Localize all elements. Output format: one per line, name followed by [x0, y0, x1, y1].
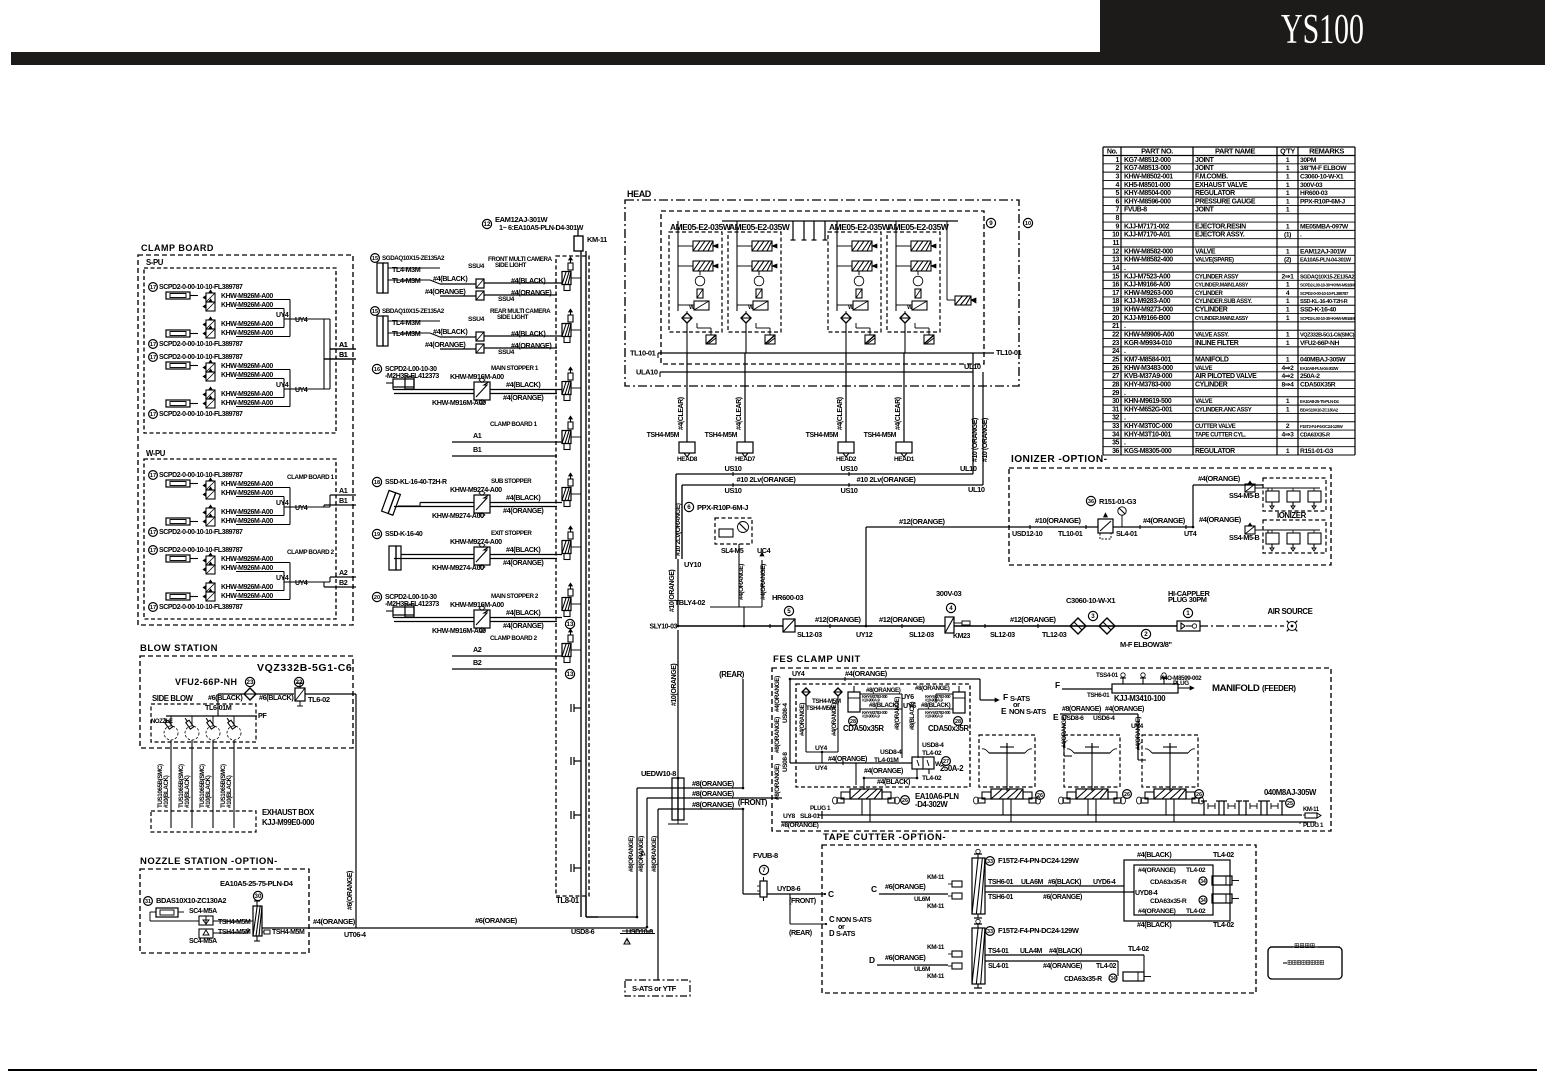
svg-text:#4(ORANGE): #4(ORANGE) [1143, 516, 1186, 525]
svg-text:VALVE: VALVE [1195, 399, 1213, 405]
svg-text:EJECTOR ASSY.: EJECTOR ASSY. [1195, 232, 1245, 239]
svg-text:#4(ORANGE): #4(ORANGE) [425, 340, 466, 349]
svg-text:(FEEDER): (FEEDER) [1262, 684, 1296, 693]
svg-text:KHW-M926M-A00: KHW-M926M-A00 [221, 400, 273, 407]
svg-text:SCPD2-0-00-10-10-FL389787: SCPD2-0-00-10-10-FL389787 [159, 547, 243, 554]
svg-text:#10 2Lv(ORANGE): #10 2Lv(ORANGE) [737, 475, 797, 484]
svg-text:#4(CLEAR): #4(CLEAR) [736, 397, 743, 430]
svg-text:(2): (2) [1284, 257, 1291, 264]
svg-text:KHW-M926M-A00: KHW-M926M-A00 [221, 518, 273, 525]
svg-text:CLAMP BOARD 1: CLAMP BOARD 1 [490, 421, 538, 428]
svg-text:JOINT: JOINT [1195, 207, 1215, 214]
cutter valve F15T2-F4-PN-DC24-129W [952, 881, 962, 887]
svg-text:KHW-M926M-A00: KHW-M926M-A00 [221, 593, 273, 600]
svg-text:13: 13 [567, 621, 574, 628]
svg-text:B1: B1 [473, 445, 482, 454]
solenoid valve EA10A8 [1154, 789, 1186, 799]
svg-text:AIR SOURCE: AIR SOURCE [1268, 607, 1313, 616]
svg-text:B1: B1 [339, 350, 348, 359]
svg-text:2: 2 [1116, 165, 1120, 172]
svg-text:#10 (ORANGE): #10 (ORANGE) [972, 418, 979, 462]
svg-text:F.M.COMB.: F.M.COMB. [1195, 173, 1228, 180]
svg-text:KVB-M37A9-000: KVB-M37A9-000 [1124, 373, 1173, 380]
svg-text:EXHAUST BOX: EXHAUST BOX [262, 808, 315, 817]
svg-text:BDAS10X10-ZC130A2: BDAS10X10-ZC130A2 [1300, 407, 1339, 412]
svg-text:#6(ORANGE): #6(ORANGE) [347, 871, 354, 910]
valve manifold dashed box [556, 256, 589, 896]
S-ATS or YTF box [657, 978, 659, 980]
svg-text:#10 (ORANGE): #10 (ORANGE) [982, 418, 989, 462]
circled 9 [986, 218, 995, 227]
ionizer supply line [1009, 526, 1193, 528]
svg-text:EA10A5-25-75-PLN-D4: EA10A5-25-75-PLN-D4 [220, 879, 294, 888]
UL10 risers [972, 353, 974, 474]
svg-text:SUB STOPPER: SUB STOPPER [491, 478, 532, 485]
S-PU box [144, 268, 336, 433]
note box [1268, 947, 1342, 979]
svg-text:26: 26 [1037, 793, 1043, 799]
svg-text:2⇒1: 2⇒1 [1282, 273, 1295, 280]
cylinder group SCPD2 [149, 353, 158, 362]
svg-text:#6(BLACK): #6(BLACK) [1048, 879, 1081, 886]
svg-text:CYLINDER: CYLINDER [1195, 381, 1228, 388]
svg-text:PART NO.: PART NO. [1141, 147, 1173, 156]
ionizer regulator R151-01-G3 [1086, 496, 1095, 505]
svg-text:KHW-M916M-A00: KHW-M916M-A00 [450, 600, 504, 609]
svg-text:C3060-10-W-X1: C3060-10-W-X1 [1300, 173, 1344, 180]
svg-text:32: 32 [1112, 415, 1119, 422]
parts table [1102, 147, 1104, 455]
svg-text:30: 30 [255, 893, 262, 900]
svg-text:4⇒2: 4⇒2 [1282, 373, 1295, 380]
svg-text:26: 26 [1112, 365, 1119, 372]
UY4 bus [790, 762, 912, 764]
TL10-01 bus [658, 352, 994, 354]
svg-text:13: 13 [1112, 257, 1119, 264]
svg-text:W-PU: W-PU [146, 449, 166, 458]
svg-text:#10-900A.9: #10-900A.9 [862, 698, 880, 703]
cylinder body [377, 316, 383, 346]
svg-text:14: 14 [1112, 265, 1119, 272]
svg-text:AME05-E2-035W: AME05-E2-035W [888, 222, 949, 232]
svg-text:S-ATS or YTF: S-ATS or YTF [632, 984, 677, 993]
svg-text:TL4-02: TL4-02 [1186, 908, 1206, 915]
svg-text:#4(ORANGE): #4(ORANGE) [800, 703, 806, 736]
svg-text:HEAD1: HEAD1 [894, 456, 915, 463]
air piloted valve 250A-2 [912, 757, 934, 769]
svg-text:UY4: UY4 [295, 317, 308, 324]
svg-text:7: 7 [1116, 207, 1120, 214]
svg-text:#8(ORANGE): #8(ORANGE) [866, 687, 901, 694]
svg-text:VALVE: VALVE [1195, 248, 1216, 255]
svg-text:UEDW10-8: UEDW10-8 [641, 769, 676, 778]
svg-text:#4(BLACK): #4(BLACK) [877, 779, 910, 786]
svg-text:CLAMP BOARD: CLAMP BOARD [141, 243, 214, 253]
svg-text:PPX-R10P-6M-J: PPX-R10P-6M-J [697, 503, 748, 512]
svg-text:KHY-M3T0C-000: KHY-M3T0C-000 [1124, 423, 1173, 430]
manifold valve [568, 422, 573, 429]
svg-text:SCPD2-0-00-10-10-FL389787: SCPD2-0-00-10-10-FL389787 [159, 354, 243, 361]
cylinder wiring [860, 693, 902, 695]
svg-text:NOZZLE STATION -OPTION-: NOZZLE STATION -OPTION- [140, 856, 278, 867]
svg-text:TL4-01M: TL4-01M [874, 757, 899, 764]
svg-text:1~ 6:EA10A5-PLN-D4-301W: 1~ 6:EA10A5-PLN-D4-301W [499, 223, 584, 232]
stopper cylinder [393, 379, 414, 387]
wire 4 black/orange to SSU4 [430, 280, 440, 284]
svg-text:#4(ORANGE): #4(ORANGE) [1136, 717, 1142, 750]
svg-text:D: D [829, 929, 835, 938]
svg-text:TL10-01: TL10-01 [996, 348, 1022, 357]
svg-text:UY4: UY4 [815, 765, 828, 772]
svg-text:KHW-M9274-A00: KHW-M9274-A00 [450, 485, 502, 494]
cylinder D CDA63x35-R [1123, 972, 1144, 981]
svg-text:#4(ORANGE): #4(ORANGE) [828, 756, 867, 763]
svg-text:EA10A8-PLN-04-302W: EA10A8-PLN-04-302W [1300, 366, 1339, 371]
valve TL6-02 [295, 688, 305, 701]
svg-text:R151-01-G3: R151-01-G3 [1300, 448, 1334, 455]
TL8-01 bottom link [585, 896, 587, 917]
svg-text:KHW-M926M-A00: KHW-M926M-A00 [221, 565, 273, 572]
svg-text:HR600-03: HR600-03 [1300, 190, 1328, 197]
svg-text:5: 5 [787, 608, 791, 615]
svg-text:KHW-M926M-A00: KHW-M926M-A00 [221, 363, 273, 370]
svg-text:28: 28 [1112, 381, 1119, 388]
svg-text:KJJ-M3410-100: KJJ-M3410-100 [1114, 694, 1166, 703]
svg-text:SL4-01: SL4-01 [988, 963, 1009, 970]
stopper valve [474, 495, 490, 513]
svg-text:17: 17 [1112, 290, 1119, 297]
cylinder 15 SBDAQ10X15 [371, 307, 380, 316]
svg-text:15: 15 [372, 309, 378, 315]
svg-text:#4(BLACK): #4(BLACK) [506, 545, 541, 554]
svg-text:IONIZER: IONIZER [1277, 511, 1307, 520]
svg-text:MAIN STOPPER 2: MAIN STOPPER 2 [491, 593, 539, 600]
svg-text:KJJ-M9166-B00: KJJ-M9166-B00 [1124, 315, 1171, 322]
svg-text:SS4-M5-B: SS4-M5-B [1229, 491, 1260, 500]
svg-text:MANIFOLD: MANIFOLD [1195, 356, 1229, 363]
svg-text:KHW-M8502-001: KHW-M8502-001 [1124, 173, 1173, 180]
air source symbol [1288, 622, 1297, 631]
main air line [678, 625, 1199, 627]
svg-text:KG7-M8513-000: KG7-M8513-000 [1124, 165, 1171, 172]
svg-text:34: 34 [1200, 879, 1206, 885]
svg-text:AIR PILOTED VALVE: AIR PILOTED VALVE [1195, 373, 1257, 380]
svg-text:MANIFOLD: MANIFOLD [1212, 683, 1260, 694]
svg-text:#10(BLACK): #10(BLACK) [226, 775, 233, 808]
svg-text:(REAR): (REAR) [719, 670, 745, 679]
svg-text:SCPD2-0-00-10-10-FL389787: SCPD2-0-00-10-10-FL389787 [159, 341, 243, 348]
svg-text:15: 15 [372, 256, 378, 262]
svg-text:CDA63x35-R: CDA63x35-R [1150, 879, 1187, 886]
svg-text:KHW-M9273-000: KHW-M9273-000 [1124, 307, 1173, 314]
svg-text:#4(ORANGE): #4(ORANGE) [1105, 706, 1144, 713]
svg-text:SSU4: SSU4 [498, 296, 515, 303]
circled 10 [1023, 218, 1032, 227]
rear riser to FES [742, 679, 744, 788]
cutter C output lines [985, 885, 1124, 887]
svg-text:SIDE LIGHT: SIDE LIGHT [495, 262, 527, 269]
cutter C cylinders box [1124, 860, 1230, 921]
svg-text:FES CLAMP UNIT: FES CLAMP UNIT [773, 654, 861, 665]
stopper EXIT STOPPER [372, 529, 381, 538]
svg-text:#4(ORANGE): #4(ORANGE) [1138, 867, 1176, 874]
svg-text:CYLINDER.ANC ASSY: CYLINDER.ANC ASSY [1195, 407, 1252, 413]
svg-text:29: 29 [1112, 390, 1119, 397]
svg-text:EXHAUST VALVE: EXHAUST VALVE [1195, 182, 1248, 189]
svg-text:KM-11: KM-11 [1303, 807, 1320, 813]
manifold valve [568, 315, 573, 322]
branch to ionizer [865, 527, 867, 626]
svg-text:UY10: UY10 [684, 560, 701, 569]
cutter valve F15T2-F4-PN-DC24-129W [952, 951, 962, 957]
distribution lines [677, 630, 679, 778]
svg-text:TSH6-01: TSH6-01 [988, 894, 1014, 901]
svg-text:CLAMP BOARD 2: CLAMP BOARD 2 [287, 549, 335, 556]
svg-text:17: 17 [150, 285, 156, 291]
svg-text:34: 34 [1200, 898, 1206, 904]
svg-text:F15T2-F4-PN-DC24-129W: F15T2-F4-PN-DC24-129W [998, 926, 1080, 935]
svg-text:#10(BLACK): #10(BLACK) [184, 775, 191, 808]
svg-text:31: 31 [145, 899, 151, 905]
svg-text:27: 27 [1112, 373, 1119, 380]
svg-text:KHW-M9274-A00: KHW-M9274-A00 [432, 563, 484, 572]
cylinder group SCPD2 [149, 471, 158, 480]
svg-text:USD8-6: USD8-6 [571, 927, 595, 936]
svg-text:KGR-M9934-010: KGR-M9934-010 [1124, 340, 1172, 347]
manifold valve [568, 373, 573, 380]
head top bus [722, 220, 958, 222]
ionizer branch [1192, 485, 1194, 527]
svg-text:#4(BLACK): #4(BLACK) [506, 493, 541, 502]
svg-text:33: 33 [987, 859, 993, 865]
svg-text:#4(BLACK): #4(BLACK) [1049, 948, 1082, 955]
svg-text:17: 17 [150, 530, 156, 536]
inline filter diamond [244, 688, 256, 700]
svg-text:TL10-01: TL10-01 [630, 349, 656, 358]
svg-text:34: 34 [1110, 976, 1116, 982]
svg-text:KM-11: KM-11 [927, 944, 945, 951]
svg-text:TSH4-M5M: TSH4-M5M [806, 705, 835, 712]
svg-text:#4(ORANGE): #4(ORANGE) [503, 506, 544, 515]
svg-text:A1: A1 [339, 340, 348, 349]
svg-text:SIDE LIGHT: SIDE LIGHT [497, 314, 529, 321]
svg-text:31: 31 [1112, 406, 1119, 413]
svg-text:36: 36 [1112, 448, 1119, 455]
svg-text:19: 19 [374, 532, 380, 538]
svg-text:#4(ORANGE): #4(ORANGE) [1043, 963, 1082, 970]
svg-text:6: 6 [687, 504, 691, 511]
check valves top left [802, 688, 810, 696]
svg-text:S-ATS: S-ATS [836, 929, 856, 938]
top rule bar [11, 52, 1545, 65]
svg-text:#4(BLACK): #4(BLACK) [511, 276, 546, 285]
suction tool dashed box [1064, 735, 1120, 787]
svg-text:CDA50X35R: CDA50X35R [1300, 381, 1336, 388]
svg-text:UY8: UY8 [783, 813, 796, 820]
svg-text:SL4-M5: SL4-M5 [721, 548, 744, 555]
svg-text:#4(CLEAR): #4(CLEAR) [678, 397, 685, 430]
svg-text:#8(BLACK): #8(BLACK) [910, 702, 916, 730]
solenoid valve EA10A8 [991, 789, 1023, 799]
svg-text:17: 17 [150, 355, 156, 361]
cutter D output lines [985, 954, 1144, 956]
svg-text:24: 24 [1112, 348, 1119, 355]
cylinder C1 CDA63x35-R [1212, 876, 1232, 885]
svg-text:#6(ORANGE): #6(ORANGE) [885, 882, 926, 891]
svg-text:300V-03: 300V-03 [1300, 182, 1323, 189]
svg-text:HEAD7: HEAD7 [735, 456, 756, 463]
svg-text:250A-2: 250A-2 [1300, 373, 1320, 380]
svg-text:SSU4: SSU4 [468, 316, 485, 323]
svg-text:CYLINDER.SUB ASSY.: CYLINDER.SUB ASSY. [1195, 299, 1252, 305]
svg-text:SSD-KL-16-40-T2H-R: SSD-KL-16-40-T2H-R [1300, 299, 1348, 305]
svg-text:C: C [828, 889, 834, 899]
svg-text:KGS-M8305-000: KGS-M8305-000 [1124, 448, 1172, 455]
svg-text:TSH6-01: TSH6-01 [1087, 692, 1110, 699]
bottom rule [8, 1069, 1537, 1071]
svg-text:HR600-03: HR600-03 [772, 593, 803, 602]
svg-text:#4(BLACK): #4(BLACK) [506, 608, 541, 617]
svg-text:UY4: UY4 [276, 575, 289, 582]
svg-text:UL10: UL10 [968, 485, 985, 494]
svg-text:A1: A1 [339, 486, 348, 495]
svg-text:TL4-02: TL4-02 [922, 775, 942, 782]
nozzle station fitting [199, 916, 213, 925]
svg-text:C3060-10-W-X1: C3060-10-W-X1 [1066, 596, 1115, 605]
svg-text:C: C [871, 884, 877, 894]
svg-text:KHW-M926M-A00: KHW-M926M-A00 [221, 321, 273, 328]
svg-text:US10: US10 [724, 486, 741, 495]
svg-text:9: 9 [1116, 223, 1120, 230]
svg-text:7: 7 [762, 867, 766, 874]
svg-text:KJJ-M9283-A00: KJJ-M9283-A00 [1124, 298, 1171, 305]
svg-text:#4(ORANGE): #4(ORANGE) [1198, 474, 1241, 483]
svg-text:26: 26 [1124, 792, 1130, 798]
svg-text:BLOW STATION: BLOW STATION [140, 643, 218, 654]
clamp board outer box [138, 255, 353, 625]
svg-text:ULA10: ULA10 [636, 368, 658, 377]
svg-text:#6(ORANGE): #6(ORANGE) [1043, 894, 1082, 901]
svg-text:KHW-M926M-A00: KHW-M926M-A00 [221, 481, 273, 488]
svg-text:17: 17 [150, 473, 156, 479]
svg-text:KM23: KM23 [953, 633, 970, 640]
svg-text:AME05-E2-035W: AME05-E2-035W [729, 222, 790, 232]
cylinder group SCPD2 [149, 283, 158, 292]
svg-text:#4(ORANGE): #4(ORANGE) [738, 564, 745, 600]
svg-text:CDA50x35R: CDA50x35R [843, 724, 884, 733]
svg-text:EXIT STOPPER: EXIT STOPPER [491, 530, 532, 537]
svg-text:15: 15 [1112, 273, 1119, 280]
svg-text:REGULATOR: REGULATOR [1195, 190, 1235, 197]
svg-text:11: 11 [1112, 240, 1119, 247]
svg-text:#10-900A.9: #10-900A.9 [925, 698, 943, 703]
svg-text:JOINT: JOINT [1195, 165, 1215, 172]
svg-text:KG7-M8512-000: KG7-M8512-000 [1124, 157, 1171, 164]
stopper valve [474, 382, 490, 400]
svg-text:17: 17 [150, 605, 156, 611]
suction tool dashed box [1142, 735, 1198, 787]
svg-text:R151-01-G3: R151-01-G3 [1099, 497, 1136, 506]
circled 13 b [565, 669, 574, 678]
svg-text:12: 12 [1112, 248, 1119, 255]
svg-text:W: W [689, 305, 695, 311]
svg-text:SIDE BLOW: SIDE BLOW [152, 694, 194, 703]
solenoid valve EA10A8 [1076, 789, 1108, 799]
gauge drop lines [738, 544, 740, 607]
svg-text:TSH4-M5M: TSH4-M5M [272, 929, 305, 936]
svg-text:KHW-M926M-A00: KHW-M926M-A00 [221, 391, 273, 398]
head right valve [955, 296, 971, 305]
exhaust box [151, 811, 256, 832]
svg-text:#4(BLACK): #4(BLACK) [1137, 850, 1172, 859]
svg-text:US08-4: US08-4 [782, 703, 789, 723]
svg-text:US10: US10 [840, 464, 857, 473]
svg-text:TS4-01: TS4-01 [988, 948, 1009, 955]
line to FVUB-8 [742, 809, 744, 894]
svg-text:EA10A8-25-T5-PLN-D4: EA10A8-25-T5-PLN-D4 [1300, 399, 1339, 404]
svg-text:#8(ORANGE): #8(ORANGE) [692, 789, 735, 798]
svg-text:PART NAME: PART NAME [1215, 147, 1255, 156]
svg-text:KH5-M8501-000: KH5-M8501-000 [1124, 182, 1171, 189]
svg-text:PF: PF [258, 711, 267, 720]
svg-text:UY4: UY4 [295, 580, 308, 587]
svg-text:AME05-E2-035W: AME05-E2-035W [829, 222, 890, 232]
svg-text:12: 12 [484, 221, 491, 228]
svg-text:KJJ-M9166-A00: KJJ-M9166-A00 [1124, 282, 1171, 289]
svg-text:#12(ORANGE): #12(ORANGE) [879, 615, 926, 624]
svg-text:SGDAQ10X15-ZE135A2: SGDAQ10X15-ZE135A2 [1300, 274, 1354, 280]
svg-text:SCPD2-L00-10-30+KHW-M916M: SCPD2-L00-10-30+KHW-M916M [1300, 283, 1355, 288]
svg-text:KHY-M8504-000: KHY-M8504-000 [1124, 190, 1171, 197]
svg-text:#10 2Lv(ORANGE): #10 2Lv(ORANGE) [857, 475, 917, 484]
svg-text:1: 1 [1186, 610, 1190, 617]
svg-text:TL4-02: TL4-02 [1186, 867, 1206, 874]
fitting KM-11 top [574, 236, 583, 251]
svg-text:#8(ORANGE): #8(ORANGE) [774, 764, 781, 800]
svg-text:KHW-M9263-000: KHW-M9263-000 [1124, 290, 1173, 297]
title block YS100 [1100, 0, 1545, 53]
svg-text:SCPD2-0-00-10-10-FL389787: SCPD2-0-00-10-10-FL389787 [159, 472, 243, 479]
svg-text:TSH4-M5M: TSH4-M5M [864, 432, 897, 439]
svg-text:TSH4-M5M: TSH4-M5M [218, 919, 251, 926]
svg-text:KHW-M926M-A00: KHW-M926M-A00 [221, 509, 273, 516]
svg-text:#10-900A.9: #10-900A.9 [925, 714, 943, 719]
svg-text:TSH4-M5M: TSH4-M5M [647, 432, 680, 439]
svg-text:ME05MBA-097W: ME05MBA-097W [1300, 223, 1349, 230]
svg-text:USD8-4: USD8-4 [922, 742, 944, 749]
svg-text:18: 18 [1112, 298, 1119, 305]
svg-text:34: 34 [1112, 431, 1119, 438]
svg-text:USD12-10: USD12-10 [1012, 529, 1043, 538]
svg-text:SL12-03: SL12-03 [909, 630, 934, 639]
manifold supply rails [580, 251, 582, 917]
svg-text:KHW-M926M-A00: KHW-M926M-A00 [221, 372, 273, 379]
svg-text:HEAD2: HEAD2 [836, 456, 857, 463]
svg-text:VFU2-66P-NH: VFU2-66P-NH [1300, 340, 1339, 347]
svg-text:UT06-4: UT06-4 [344, 930, 366, 939]
manifold valve [568, 635, 573, 642]
svg-text:SCPD2-0-00-10-10-FL389787: SCPD2-0-00-10-10-FL389787 [159, 284, 243, 291]
svg-text:KHW-M9274-A00: KHW-M9274-A00 [432, 511, 484, 520]
svg-text:KHW-M8582-000: KHW-M8582-000 [1124, 248, 1173, 255]
svg-text:PRESSURE GAUGE: PRESSURE GAUGE [1195, 198, 1256, 205]
stopper valve [474, 547, 490, 565]
FES cylinder left CDA50X35R [848, 692, 860, 712]
svg-text:SCPD2-L00-10-30: SCPD2-L00-10-30 [385, 594, 437, 601]
svg-text:4⇒3: 4⇒3 [1282, 431, 1295, 438]
svg-text:CLAMP BOARD 1: CLAMP BOARD 1 [287, 474, 335, 481]
manifold valve [568, 532, 573, 539]
